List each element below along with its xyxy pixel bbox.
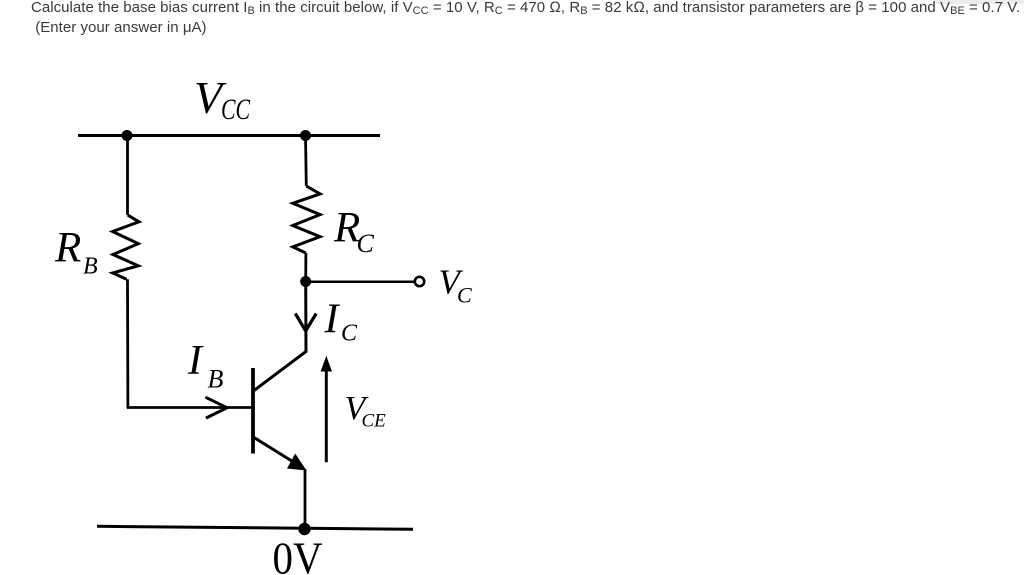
transistor Q1 emitter lead — [254, 438, 295, 464]
svg-text:CE: CE — [362, 411, 387, 432]
svg-text:B: B — [208, 365, 224, 394]
node Vcc-right junction dot — [300, 130, 311, 141]
label IC — [324, 297, 359, 347]
resistor RC — [293, 186, 320, 253]
svg-text:C: C — [341, 321, 358, 347]
arrow IC (chevron on collector wire) — [295, 314, 316, 332]
question text — [31, 0, 1024, 38]
svg-text:C: C — [457, 283, 472, 308]
svg-text:0V: 0V — [273, 533, 323, 575]
label IB — [187, 338, 224, 394]
svg-text:B: B — [83, 254, 98, 280]
wire Vc output — [306, 280, 414, 283]
svg-text:C: C — [357, 229, 375, 258]
node collector junction dot — [300, 276, 311, 287]
arrow VCE (vertical with arrowhead up) — [321, 356, 332, 463]
wire top rail — [78, 134, 380, 137]
arrow IB (chevron on base wire) — [205, 397, 227, 418]
label Vcc — [194, 72, 251, 126]
resistor RC upper wire — [304, 136, 308, 187]
wire base — [127, 406, 252, 409]
wire left branch lower — [126, 279, 129, 406]
transistor Q1 base bar — [251, 368, 255, 454]
svg-text:R: R — [54, 225, 81, 272]
artifact light box top-right — [934, 0, 1024, 4]
svg-text:I: I — [324, 297, 341, 343]
resistor RB — [113, 215, 139, 279]
label Vc — [439, 263, 473, 308]
svg-text:I: I — [187, 338, 204, 384]
transistor Q1 collector lead — [254, 282, 306, 391]
wire left branch upper — [126, 136, 129, 216]
svg-text:CC: CC — [221, 93, 251, 126]
wire ground rail — [97, 526, 413, 529]
label RB — [54, 225, 98, 280]
resistor RC lower wire — [304, 253, 307, 282]
node ground junction dot — [298, 523, 310, 535]
terminal Vc open circle — [415, 277, 424, 286]
label RC — [333, 205, 375, 258]
label VCE — [345, 390, 387, 432]
wire emitter down — [304, 469, 307, 527]
transistor Q1 emitter arrowhead — [287, 454, 307, 471]
node Vcc-left junction dot — [122, 130, 133, 141]
